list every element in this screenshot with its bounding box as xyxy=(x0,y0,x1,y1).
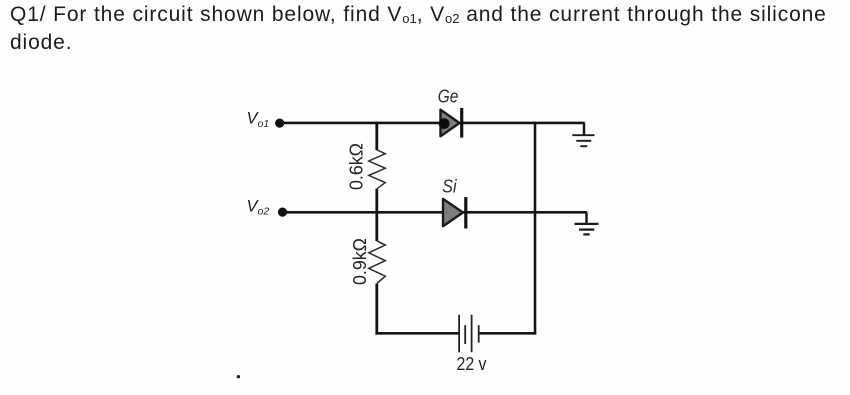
junction dot at Vo1 xyxy=(275,119,284,128)
ground G1 bar 1 xyxy=(572,134,594,136)
ground G1 stub xyxy=(583,123,585,135)
svg-text:Vo1: Vo1 xyxy=(247,110,270,130)
svg-text:22 v: 22 v xyxy=(457,353,488,374)
resistor R2 zigzag (0.9k ohm) xyxy=(369,241,386,284)
wire: Vo2 horizontal rail xyxy=(283,211,587,214)
wire: resistor branch middle lead xyxy=(375,189,378,241)
wire: bottom right segment battery to rail xyxy=(479,332,536,335)
diode D1 Ge: cathode bar xyxy=(460,108,463,138)
ground G2 bar 2 xyxy=(579,228,594,230)
svg-text:0.9kΩ: 0.9kΩ xyxy=(349,238,370,285)
node Vo2 label xyxy=(247,198,270,218)
wire: resistor branch upper lead xyxy=(375,122,378,150)
diode D1 Ge: triangle xyxy=(441,110,460,137)
svg-text:Ge: Ge xyxy=(438,86,459,107)
resistor R1 zigzag (0.6k ohm) xyxy=(369,150,386,189)
battery V1 plate 1 (tall) xyxy=(458,315,460,353)
diode D2 Si: cathode bar xyxy=(464,197,467,228)
svg-text:Si: Si xyxy=(442,176,457,197)
ground G1 bar 3 xyxy=(580,145,587,147)
ground G2 bar 1 xyxy=(575,223,599,225)
node Vo1 label xyxy=(247,110,270,130)
ground G2 stub xyxy=(585,212,587,223)
battery V1 plate 3 (tall) xyxy=(471,315,473,353)
svg-text:Vo2: Vo2 xyxy=(247,198,270,218)
wire: Vo1 horizontal rail xyxy=(280,122,585,125)
ground G1 bar 2 xyxy=(576,140,591,142)
diode D2 Si: triangle xyxy=(443,199,463,226)
wire: right vertical rail xyxy=(534,122,537,334)
junction dot at D1 anode xyxy=(439,118,450,129)
battery V1 plate 4 (short) xyxy=(478,325,480,342)
stray period dot xyxy=(237,375,240,378)
wire: resistor branch lower lead xyxy=(375,284,378,335)
question text xyxy=(10,2,827,56)
wire: bottom left segment to battery xyxy=(375,332,458,335)
junction dot at Vo2 xyxy=(278,208,287,217)
svg-text:0.6kΩ: 0.6kΩ xyxy=(345,143,366,190)
battery V1 plate 2 (short) xyxy=(464,325,466,344)
ground G2 bar 3 xyxy=(583,233,589,235)
